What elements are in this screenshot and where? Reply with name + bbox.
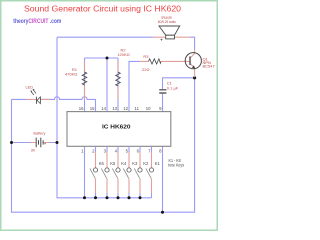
wire: emitter junction to C1 and down to IC pin 9 (163, 78, 195, 112)
wire: IC pin 1 to switch bus (84, 146, 86, 198)
resistor R2 120K between y=58 net and IC pin 13 (116, 58, 121, 112)
svg-text:11: 11 (135, 106, 140, 111)
svg-text:10: 10 (146, 106, 151, 111)
node: junction of y=58 net and pin 14 riser (106, 57, 109, 60)
svg-text:Battery: Battery (33, 132, 45, 136)
wire: IC pin 8 common down to bottom rail (162, 146, 164, 212)
svg-text:470KΩ: 470KΩ (65, 72, 77, 77)
node: battery right tap on x=57 rail (56, 141, 59, 144)
svg-text:K5: K5 (110, 161, 116, 166)
IC U1 HK620 (67, 112, 171, 147)
svg-text:K1: K1 (155, 161, 161, 166)
switch K3 on pin 5 (123, 146, 131, 199)
svg-text:3V: 3V (31, 149, 36, 153)
node: emitter junction on right rail (193, 76, 196, 79)
svg-text:120KΩ: 120KΩ (117, 52, 129, 57)
IC pin numbers bottom row 1..8 (81, 148, 162, 153)
IC pin numbers top row 16..9 (79, 106, 162, 111)
switch K2 on pin 6 (134, 146, 142, 199)
wire: speaker right to collector riser (190, 37, 195, 49)
wire: outer loop right rail / bottom rail / left rail (12, 78, 195, 212)
svg-text:R3: R3 (143, 54, 149, 59)
wire: left rail x=57 down to switch bus, bus to K1 (57, 37, 152, 198)
svg-text:IC HK620: IC HK620 (102, 124, 131, 130)
svg-text:K6: K6 (99, 161, 105, 166)
resistor R1 470K between y=58 net and IC pin 16 (82, 58, 87, 112)
svg-text:Sound Generator Circuit using: Sound Generator Circuit using IC HK620 (24, 4, 182, 13)
svg-text:K2: K2 (143, 161, 149, 166)
svg-text:15: 15 (90, 106, 95, 111)
battery BT1 3V (30, 138, 50, 148)
svg-text:tone Keys: tone Keys (168, 163, 184, 168)
svg-text:16: 16 (79, 106, 84, 111)
speaker SPK 8 ohm (153, 26, 190, 41)
switch K5 on pin 3 (101, 146, 109, 199)
resistor R3 22Ω in series with Q1 base (140, 59, 190, 64)
svg-text:8Ω/0.25 watts: 8Ω/0.25 watts (158, 20, 176, 24)
wire: battery net y=142.5 (12, 142, 58, 144)
wire: oscillator net y=58 joining R1 top, pin 14, R2 top (85, 58, 119, 112)
switch K1 on pin 7 (146, 146, 154, 198)
node: pin 1 junction on bus (83, 196, 86, 199)
svg-text:12: 12 (123, 106, 128, 111)
switch K4 on pin 4 (112, 146, 120, 199)
svg-text:13: 13 (112, 106, 117, 111)
transistor Q1 BC547 NPN (185, 50, 201, 78)
led LED1 on pin 15 net (27, 89, 51, 104)
node: battery left tap on left rail (10, 141, 13, 144)
svg-text:LED: LED (26, 86, 34, 90)
capacitor C1 on pin 9 line (159, 90, 166, 93)
switch K6 on pin 2 (90, 146, 98, 199)
svg-text:22Ω: 22Ω (142, 67, 149, 72)
svg-text:BC547: BC547 (203, 64, 216, 69)
svg-text:K4: K4 (121, 161, 127, 166)
svg-text:K3: K3 (132, 161, 138, 166)
wire: LED net y=99.4 with hops over x=57 and x=84.5, down to IC pin 15 (12, 97, 96, 112)
node: pin 8 junction on bottom rail (161, 211, 164, 214)
svg-text:theoryCIRCUIT .com: theoryCIRCUIT .com (13, 18, 61, 25)
wire: pin 12 riser and base wire to R3 (129, 61, 140, 111)
svg-text:14: 14 (101, 106, 106, 111)
svg-text:0.1 µF: 0.1 µF (167, 85, 179, 90)
wire: top rail from left rail corner to speaker left lead (57, 36, 153, 38)
